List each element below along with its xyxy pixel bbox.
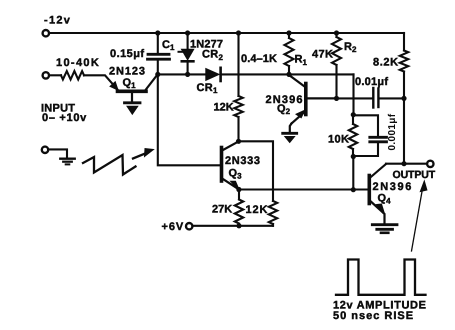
transistor Q2 2N396	[289, 75, 337, 132]
junction Q3 collector	[236, 139, 241, 144]
wire 8.2K lower lead	[403, 72, 405, 164]
wire second rail corner down to 10K	[352, 74, 354, 114]
output pointer arrow	[412, 181, 427, 251]
junction R1 bottom	[286, 72, 291, 77]
node +6V terminal	[186, 223, 192, 229]
junction C1 top	[155, 30, 160, 35]
wire R2 lower lead	[335, 65, 337, 98]
wire 12K second lower lead	[272, 224, 274, 226]
wire left vertical to Q3 base	[158, 74, 220, 165]
junction 27K bottom	[236, 223, 241, 228]
wire 12K upper lead	[237, 33, 239, 96]
svg-text:8.2K: 8.2K	[373, 56, 399, 68]
resistor 10K	[349, 115, 357, 157]
wire input lead	[50, 74, 62, 76]
junction Q2 base node	[334, 96, 339, 101]
ground lower input	[60, 159, 74, 165]
resistor R2 47K	[332, 33, 341, 65]
junction 8.2K and 0.01uf	[401, 96, 406, 101]
transistor Q3 2N333	[222, 142, 240, 191]
wire 12K lower lead	[237, 117, 239, 141]
wire lower input lead	[49, 149, 67, 157]
junction R1 top	[286, 30, 291, 35]
ground Q2 emitter	[283, 133, 297, 142]
junction output node	[401, 161, 406, 166]
sawtooth arrow to wire	[133, 149, 154, 159]
wire second rail left segment	[158, 73, 205, 75]
wire 0.001uf branch bottom	[353, 143, 378, 156]
wire 8.2K upper lead	[403, 33, 405, 51]
svg-text:27K: 27K	[212, 203, 232, 215]
resistor 12K collector load	[234, 96, 242, 117]
wire CR2 cathode lead	[187, 63, 189, 75]
wire 0.01uf to 8.2K branch	[380, 97, 404, 99]
wire 10K node to Q4 base rail	[352, 157, 354, 190]
junction C1 bottom	[155, 72, 160, 77]
node lower input terminal	[42, 147, 48, 153]
wire output	[386, 163, 427, 165]
node OUTPUT terminal	[427, 161, 433, 167]
wire CR2 anode lead	[187, 33, 189, 49]
wire C1 lower lead	[157, 61, 159, 75]
svg-text:0.01μf: 0.01μf	[355, 76, 388, 88]
node input terminal	[43, 72, 49, 78]
wire 0.001uf branch top	[353, 115, 378, 136]
capacitor C1 0.15uf	[148, 54, 170, 59]
resistor 10-40K	[61, 71, 84, 79]
resistor 8.2K	[400, 51, 408, 72]
junction Q3 emitter	[236, 187, 241, 192]
svg-text:0– +10v: 0– +10v	[42, 112, 87, 124]
svg-text:2N396: 2N396	[373, 181, 413, 193]
junction CR2 top	[185, 30, 190, 35]
svg-text:12K: 12K	[214, 101, 234, 113]
junction 10K top	[351, 112, 356, 117]
svg-text:+6V: +6V	[162, 221, 185, 233]
svg-text:10-40K: 10-40K	[56, 57, 100, 69]
svg-text:2N123: 2N123	[109, 65, 146, 77]
wire top -12v rail	[50, 32, 405, 34]
capacitor 0.001uf	[370, 137, 387, 142]
ground Q4 emitter	[372, 225, 397, 233]
ground Q1 base	[125, 93, 141, 114]
svg-text:0.15μf: 0.15μf	[110, 48, 145, 60]
wire Q3 emitter to Q4 base	[239, 188, 368, 190]
svg-text:-12v: -12v	[44, 14, 71, 26]
output pulse waveform	[336, 260, 426, 295]
svg-text:0.4–1K: 0.4–1K	[241, 53, 277, 65]
wire Q2 base to 0.01uf	[337, 97, 373, 99]
resistor 12K emitter side	[269, 201, 277, 224]
resistor 27K	[235, 190, 243, 224]
junction 12K top at rail	[236, 30, 241, 35]
junction Q4 base wire	[351, 187, 356, 192]
sawtooth input waveform	[83, 155, 136, 175]
transistor Q4 2N396	[369, 164, 386, 223]
wire Q3 collector to 12K load	[239, 141, 274, 201]
junction 10K bottom	[351, 154, 356, 159]
wire second rail right segment	[221, 73, 354, 75]
junction R2 top	[334, 30, 339, 35]
svg-text:0.001μf: 0.001μf	[387, 113, 398, 150]
svg-text:47K: 47K	[312, 48, 333, 60]
svg-text:12K: 12K	[246, 204, 269, 216]
node -12v supply terminal	[43, 30, 49, 36]
svg-text:2N333: 2N333	[225, 155, 261, 167]
junction CR2 bottom	[185, 72, 190, 77]
wire +6V rail	[193, 225, 273, 227]
wire C1 upper lead	[157, 33, 159, 53]
diode CR2 1N277	[179, 50, 194, 62]
svg-text:10K: 10K	[328, 134, 349, 146]
svg-text:50 nsec RISE: 50 nsec RISE	[333, 310, 414, 322]
capacitor 0.01uf	[373, 88, 378, 108]
diode CR1	[206, 68, 221, 81]
svg-text:OUTPUT: OUTPUT	[393, 169, 436, 181]
wire resistor to Q1 emitter	[84, 75, 118, 89]
transistor Q1 2N123	[111, 75, 158, 92]
resistor R1 0.4-1K	[285, 33, 294, 74]
